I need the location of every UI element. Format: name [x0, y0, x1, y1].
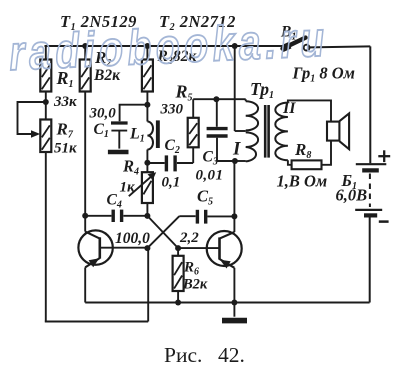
svg-text:В2к: В2к — [182, 277, 208, 293]
svg-text:0,01: 0,01 — [196, 168, 224, 184]
svg-text:1к: 1к — [120, 180, 136, 196]
svg-text:100,0: 100,0 — [115, 230, 150, 247]
svg-text:R7: R7 — [56, 120, 74, 141]
svg-text:30,0: 30,0 — [89, 106, 117, 122]
svg-text:1,В Ом: 1,В Ом — [277, 172, 328, 191]
svg-text:С2: С2 — [165, 137, 180, 156]
svg-text:I: I — [232, 139, 241, 160]
svg-text:Тр1: Тр1 — [250, 79, 274, 101]
svg-text:С1: С1 — [94, 121, 109, 140]
svg-text:L1: L1 — [129, 126, 145, 145]
svg-text:II: II — [282, 100, 296, 117]
svg-text:33к: 33к — [53, 94, 77, 110]
svg-text:6,0В: 6,0В — [336, 186, 368, 205]
svg-text:radiobooka.ru: radiobooka.ru — [8, 12, 330, 81]
svg-text:R5: R5 — [175, 82, 193, 104]
svg-text:R4: R4 — [122, 157, 139, 178]
svg-text:42.: 42. — [218, 343, 245, 367]
svg-text:2,2: 2,2 — [179, 230, 199, 246]
svg-text:Рис.: Рис. — [164, 343, 202, 367]
svg-text:R6: R6 — [183, 260, 199, 278]
svg-text:330: 330 — [160, 102, 184, 118]
svg-text:R8: R8 — [294, 140, 311, 161]
svg-text:С5: С5 — [197, 187, 213, 208]
svg-text:51к: 51к — [54, 141, 77, 157]
svg-text:0,1: 0,1 — [162, 175, 181, 191]
svg-text:С3: С3 — [203, 149, 218, 168]
